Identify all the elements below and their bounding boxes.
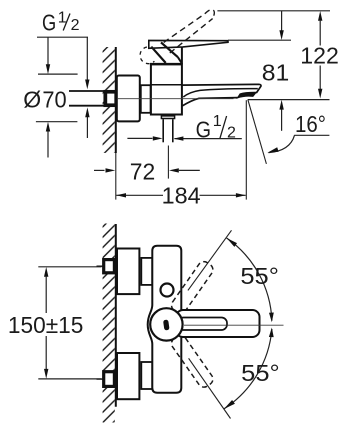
svg-text:2: 2 bbox=[71, 17, 80, 34]
svg-text:16°: 16° bbox=[295, 111, 326, 137]
svg-text:70: 70 bbox=[42, 87, 66, 113]
svg-text:55°: 55° bbox=[240, 263, 279, 289]
svg-text:122: 122 bbox=[300, 43, 339, 69]
svg-text:184: 184 bbox=[162, 183, 201, 209]
svg-text:55°: 55° bbox=[241, 360, 280, 386]
svg-text:Ø: Ø bbox=[23, 87, 41, 113]
svg-text:81: 81 bbox=[262, 60, 290, 86]
svg-text:72: 72 bbox=[130, 158, 156, 184]
svg-text:1: 1 bbox=[213, 113, 222, 130]
svg-text:G: G bbox=[42, 9, 56, 35]
svg-text:150±15: 150±15 bbox=[8, 312, 84, 338]
